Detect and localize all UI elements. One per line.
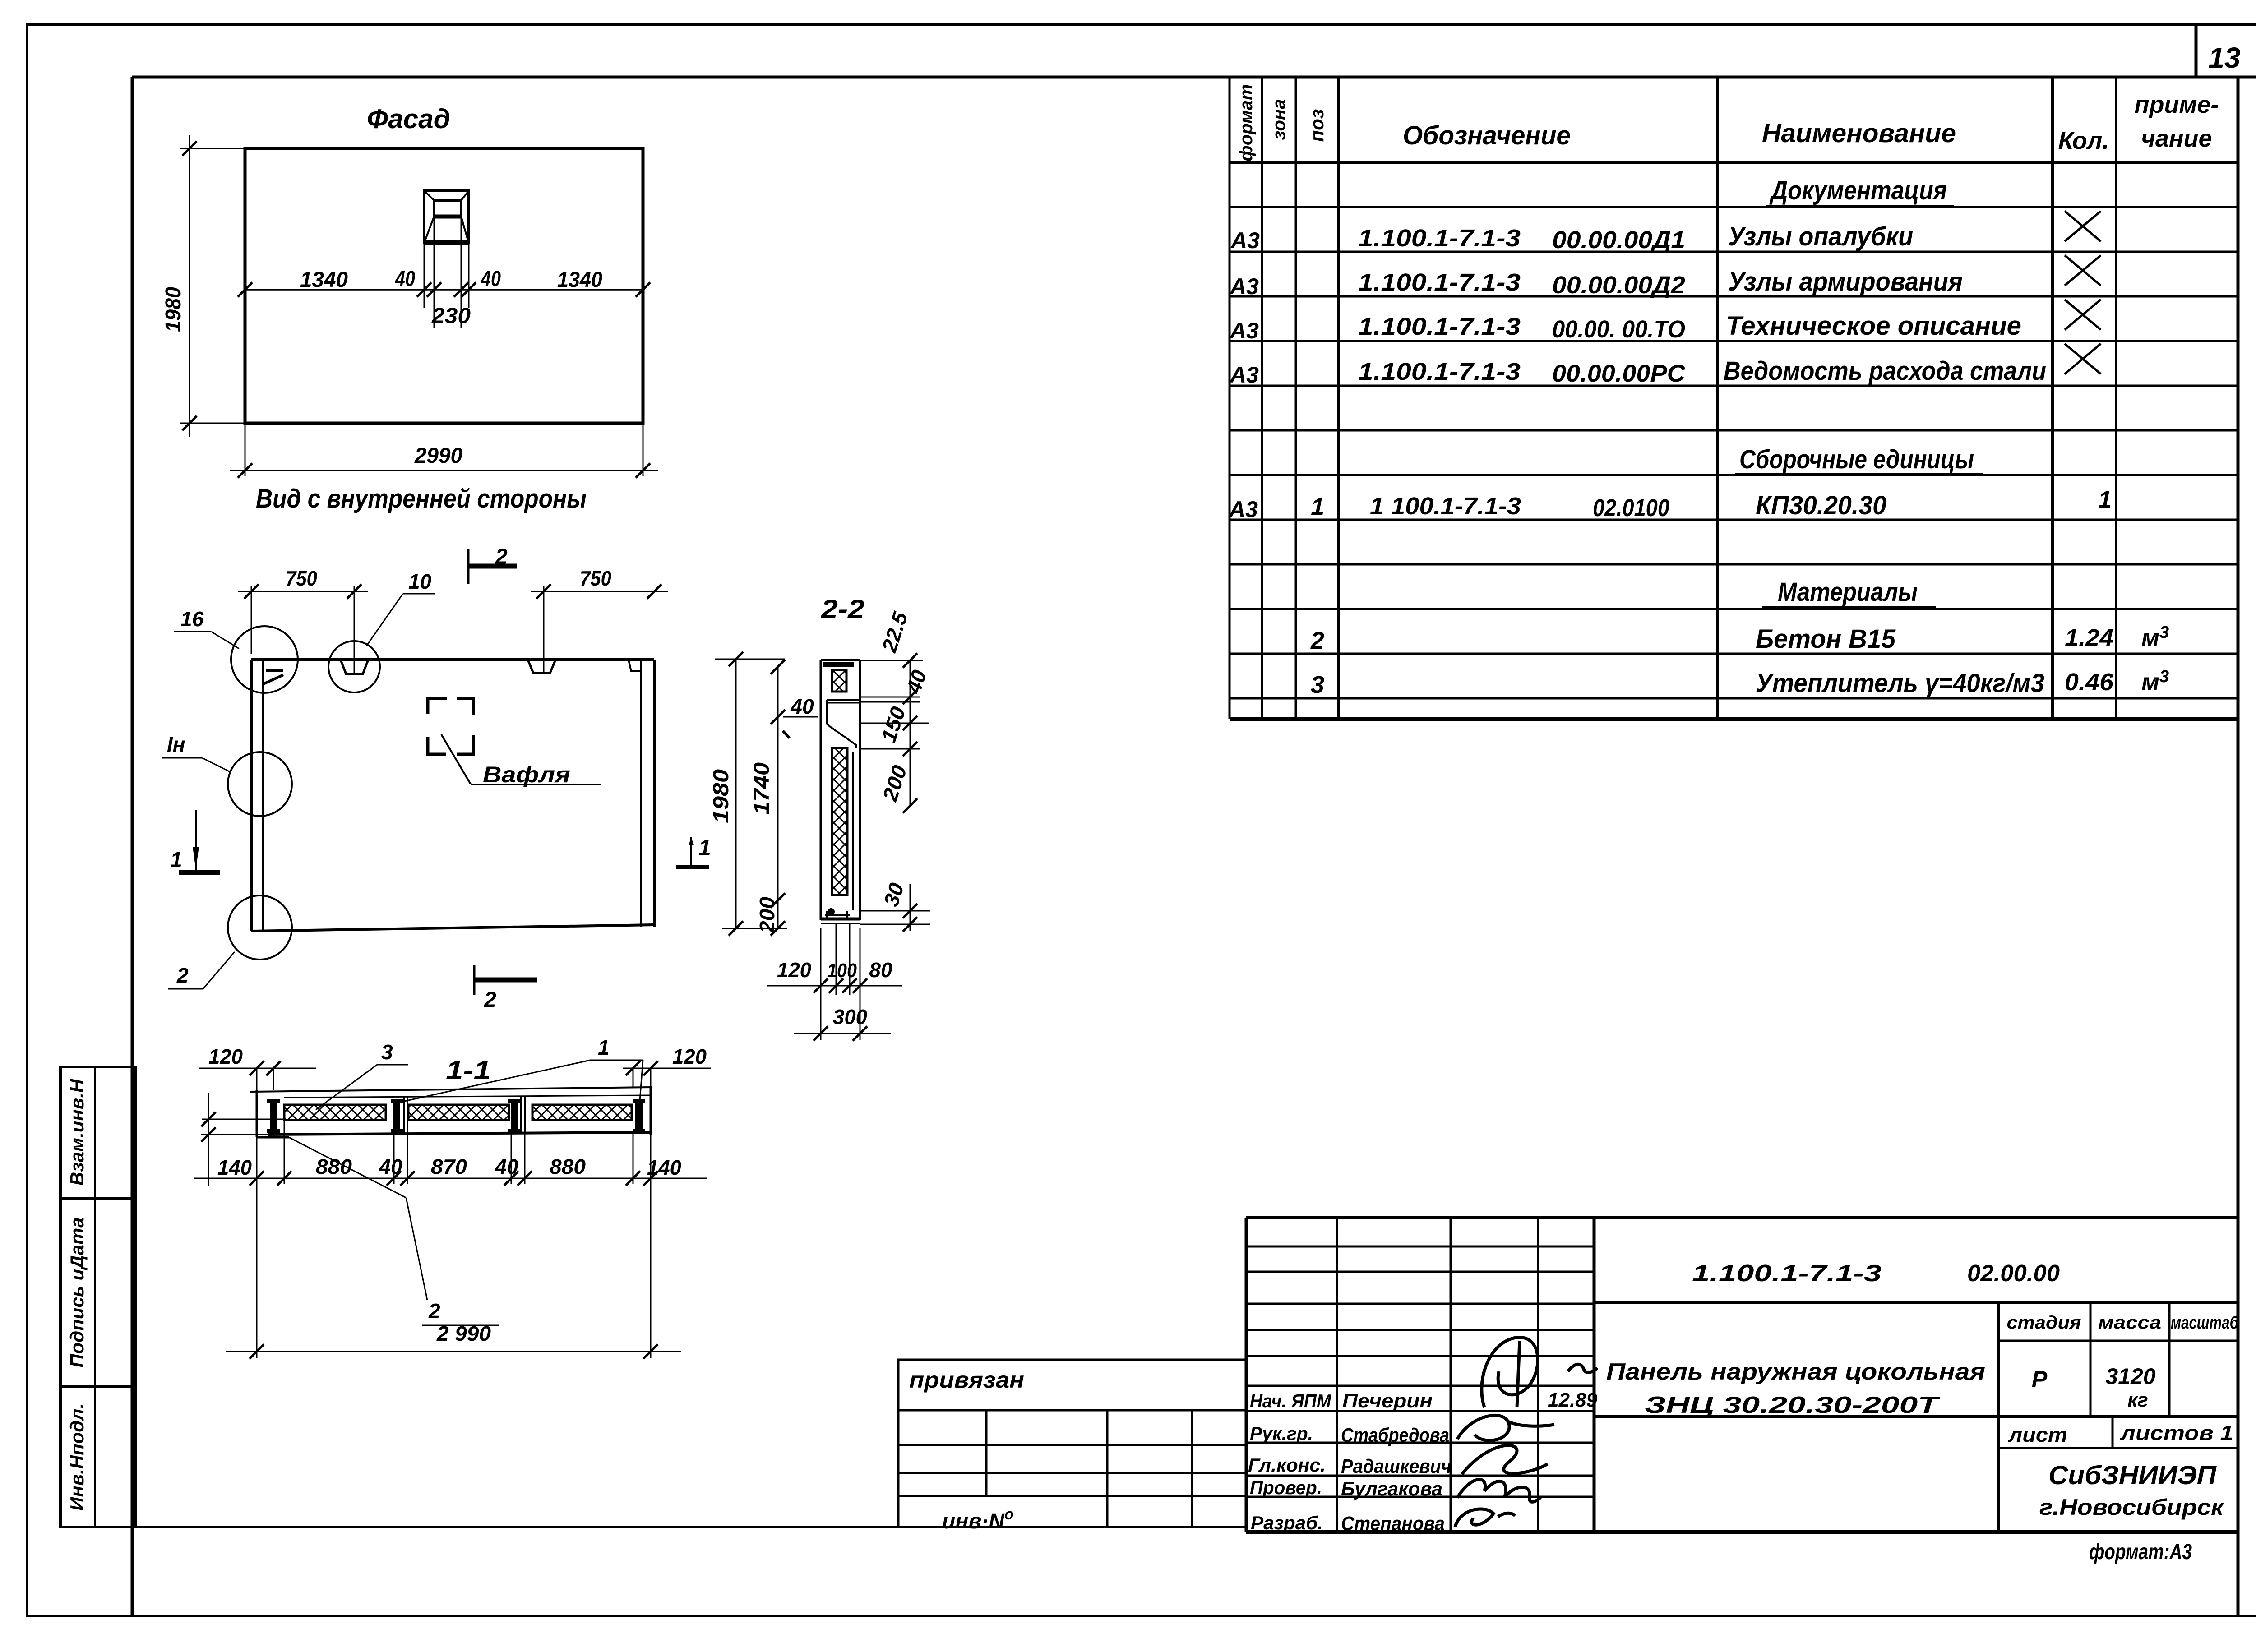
dimension 120 right [623,1045,711,1088]
section 1-1 dimension 2990 [226,1184,681,1359]
svg-text:формат:А3: формат:А3 [2089,1540,2192,1564]
svg-text:3120: 3120 [2105,1364,2155,1389]
svg-text:А3: А3 [1229,318,1259,343]
signature labels [1248,1389,1598,1535]
svg-text:Р: Р [2032,1366,2048,1393]
section mark 2 bottom [474,965,537,1012]
svg-text:Вафля: Вафля [483,762,570,787]
svg-text:Инв.Нподл.: Инв.Нподл. [66,1403,88,1511]
svg-text:Рук.гр.: Рук.гр. [1250,1423,1313,1444]
svg-text:880: 880 [550,1155,586,1178]
svg-text:Нач. ЯПМ: Нач. ЯПМ [1250,1390,1331,1412]
svg-text:Кол.: Кол. [2058,127,2109,154]
section 1-1 thickness reference lines [201,1093,284,1186]
svg-text:Iн: Iн [167,733,185,756]
svg-text:Разраб.: Разраб. [1251,1512,1323,1533]
inner drawing frame right line [2237,77,2240,1616]
callout circle node 16 [231,626,298,693]
signature squiggles [1455,1338,1597,1527]
dimension 120 left [199,1045,316,1090]
section 1-1 left end rib [267,1099,280,1133]
section mark 2 top [468,545,517,584]
svg-text:1.100.1-7.1-3: 1.100.1-7.1-3 [1358,313,1521,340]
svg-text:880: 880 [316,1155,352,1178]
svg-text:40: 40 [790,695,814,718]
callout circle node Iн [228,752,292,816]
spec row: Утеплитель [1311,667,2169,698]
svg-text:1340: 1340 [300,268,348,292]
svg-text:1.24: 1.24 [2065,624,2113,651]
svg-text:Обозначение: Обозначение [1403,121,1571,150]
svg-text:Сборочные единицы: Сборочные единицы [1739,445,1974,474]
svg-text:1740: 1740 [750,762,774,815]
svg-text:Печерин: Печерин [1342,1390,1433,1412]
svg-text:200: 200 [755,897,779,933]
svg-text:1.100.1-7.1-3: 1.100.1-7.1-3 [1692,1260,1882,1287]
specification table grid [1230,77,2238,719]
svg-text:120: 120 [672,1045,707,1068]
section 2-2 right dimensions [860,609,931,932]
svg-text:870: 870 [431,1155,467,1178]
spec row: Техническое описание [1229,300,2101,343]
facade vertical dimension 1980 [162,135,247,437]
section 2-2 insulation strip [832,748,847,895]
svg-text:поз: поз [1306,109,1327,142]
svg-text:1-1: 1-1 [446,1056,491,1085]
svg-text:А3: А3 [1229,362,1259,388]
svg-text:1: 1 [698,835,711,860]
facade middle dimension line [238,267,650,328]
label 2 with leader [168,952,235,989]
svg-text:12.89: 12.89 [1548,1389,1598,1411]
svg-text:инв·Nо: инв·Nо [942,1506,1014,1533]
title block grid [1246,1218,2238,1532]
svg-text:Узлы армирования: Узлы армирования [1728,267,1963,296]
svg-text:масштаб: масштаб [2171,1313,2239,1333]
svg-text:Провер.: Провер. [1250,1477,1322,1498]
label 2 with leader [289,1137,499,1325]
svg-text:А3: А3 [1230,228,1260,253]
svg-text:40: 40 [379,1155,402,1178]
svg-text:кг: кг [2127,1389,2148,1411]
spec row: КП30.20.30 [1228,486,2112,522]
svg-text:1980: 1980 [162,287,185,332]
svg-text:2: 2 [428,1299,440,1323]
callout circle node 10 [328,641,380,692]
facade panel outline [245,148,643,423]
svg-text:приме-: приме- [2135,91,2219,118]
svg-text:1: 1 [1311,494,1324,521]
spec row: Сборочные единицы heading [1735,445,1983,474]
svg-text:40: 40 [495,1155,518,1178]
svg-text:ЗНЦ 30.20.30-200Т: ЗНЦ 30.20.30-200Т [1645,1392,1941,1418]
svg-text:1980: 1980 [709,769,733,823]
svg-text:Подпись иДата: Подпись иДата [66,1217,88,1367]
svg-text:3: 3 [1311,671,1324,698]
svg-text:00.00. 00.ТО: 00.00. 00.ТО [1552,316,1685,343]
svg-text:120: 120 [208,1045,243,1068]
svg-text:А3: А3 [1229,274,1259,299]
section 1-1 joint 2 [508,1096,525,1133]
section 1-1 insulation strip 1 [284,1105,386,1120]
svg-text:1 100.1-7.1-3: 1 100.1-7.1-3 [1370,493,1521,520]
svg-text:привязан: привязан [909,1367,1024,1393]
svg-text:1: 1 [598,1036,610,1059]
section 1-1 bottom dimension chain [194,1120,707,1186]
long line from strip to title block [60,1526,1246,1528]
svg-text:Фасад: Фасад [367,104,450,134]
svg-text:А3: А3 [1228,497,1258,522]
svg-text:стадия: стадия [2007,1313,2081,1333]
svg-text:Панель наружная цокольная: Панель наружная цокольная [1606,1359,1985,1385]
svg-text:2: 2 [1310,627,1324,654]
corner detail (node 16) [264,671,283,684]
section 1-1 insulation strip 3 [532,1105,632,1120]
svg-text:листов 1: листов 1 [2120,1421,2233,1444]
svg-text:0.46: 0.46 [2065,669,2114,696]
svg-text:02.0100: 02.0100 [1593,494,1669,521]
svg-text:Документация: Документация [1769,176,1947,205]
svg-text:1340: 1340 [557,268,602,292]
label 3 with leader [316,1040,408,1110]
svg-text:100: 100 [827,960,857,982]
section 2-2 small insulation block [832,670,846,692]
top notch 1 [341,660,368,674]
spec row: Узлы армирования [1229,255,2101,299]
section 1-1 insulation strip 2 [408,1105,509,1120]
section 2-2 left dimensions [709,652,818,936]
svg-text:масса: масса [2098,1313,2161,1333]
svg-text:2: 2 [176,964,189,987]
svg-text:00.00.00Д1: 00.00.00Д1 [1552,226,1685,254]
svg-text:2990: 2990 [414,444,462,468]
callout circle node 2 [228,895,292,960]
svg-text:лист: лист [2008,1423,2067,1446]
svg-text:Стабредова: Стабредова [1341,1424,1449,1446]
svg-text:2 990: 2 990 [436,1322,491,1345]
svg-text:Бетон В15: Бетон В15 [1756,624,1896,654]
section 1-1 right end rib [633,1099,645,1133]
svg-text:чание: чание [2141,125,2212,152]
svg-text:Булгакова: Булгакова [1341,1478,1442,1500]
svg-text:Наименование: Наименование [1762,119,1956,148]
svg-text:2-2: 2-2 [821,595,864,624]
left table of title block [898,1410,1246,1527]
svg-text:Взам.инв.Н: Взам.инв.Н [66,1078,88,1186]
svg-text:00.00.00РС: 00.00.00РС [1552,360,1686,387]
svg-text:750: 750 [580,567,611,590]
section 2-2 bottom anchor [825,909,850,918]
стадия масса масштаб header [2007,1313,2239,1333]
label 1 with leaders [402,1036,643,1102]
section 1-1 panel outline [250,1087,652,1137]
svg-text:1.100.1-7.1-3: 1.100.1-7.1-3 [1358,225,1521,252]
svg-text:Техническое описание: Техническое описание [1726,311,2021,341]
svg-text:750: 750 [286,567,317,590]
section 2-2 bottom dimensions [767,923,902,1041]
svg-text:Вид с внутренней стороны: Вид с внутренней стороны [256,484,587,513]
section 2-2 profile [821,660,860,923]
svg-text:140: 140 [217,1156,252,1179]
svg-text:80: 80 [869,958,892,982]
facade bottom dimension 2990 [230,423,658,478]
svg-text:1.100.1-7.1-3: 1.100.1-7.1-3 [1358,269,1521,296]
top dimension 750 left [238,567,368,673]
svg-text:140: 140 [647,1156,681,1179]
вафля dashed square [428,698,473,754]
sheet number box [2196,24,2241,77]
svg-text:13: 13 [2208,42,2240,74]
svg-text:Узлы опалубки: Узлы опалубки [1728,222,1913,251]
spec row: Бетон В15 [1310,623,2169,654]
lifting hole outer [424,191,469,243]
section mark 1 right [676,835,711,867]
svg-text:Степанова: Степанова [1341,1513,1445,1535]
spec row: Узлы опалубки [1230,211,2101,254]
svg-text:1.100.1-7.1-3: 1.100.1-7.1-3 [1358,358,1521,385]
svg-text:СибЗНИИЭП: СибЗНИИЭП [2048,1461,2217,1490]
left part of title block: привязан box [898,1360,1246,1410]
svg-text:2: 2 [495,545,508,569]
svg-text:2: 2 [484,988,496,1012]
svg-text:КП30.20.30: КП30.20.30 [1756,491,1886,520]
svg-text:00.00.00Д2: 00.00.00Д2 [1552,272,1685,299]
svg-text:230: 230 [431,304,471,328]
inner drawing frame top line [132,76,2256,79]
svg-text:120: 120 [777,958,811,982]
spec row: Материалы heading [1762,577,1936,607]
svg-text:Утеплитель γ=40кг/м3: Утеплитель γ=40кг/м3 [1756,669,2044,698]
вафля label with leader [441,734,601,787]
spec row: Документация heading [1766,176,1954,206]
svg-text:3: 3 [381,1040,393,1064]
svg-text:Ведомость расхода стали: Ведомость расхода стали [1724,356,2046,386]
svg-text:02.00.00: 02.00.00 [1967,1260,2060,1287]
left margin strip [60,1067,135,1527]
label 16 with leader [174,607,239,649]
svg-text:300: 300 [833,1005,867,1029]
top notch 2 [528,660,555,673]
svg-text:40: 40 [481,267,501,291]
section mark 1 left [170,810,220,872]
svg-text:40: 40 [395,267,415,291]
svg-text:формат: формат [1236,84,1256,161]
inner view panel outline [251,660,654,931]
spec row: Ведомость расхода стали [1229,344,2101,388]
svg-text:1: 1 [170,848,182,872]
svg-text:зона: зона [1269,99,1289,140]
spec table headers [1236,84,2219,161]
label 10 with leader [366,570,435,646]
svg-text:Радашкевич: Радашкевич [1341,1455,1452,1477]
section 1-1 joint 1 [391,1096,407,1133]
svg-text:10: 10 [408,570,432,593]
top dimension 750 right [531,567,668,673]
label Iн with leader [162,733,231,772]
svg-text:16: 16 [180,607,204,631]
inner drawing frame left line [131,77,134,1616]
svg-text:Материалы: Материалы [1778,577,1918,607]
lifting hole extension lines [424,217,469,328]
svg-text:г.Новосибирск: г.Новосибирск [2039,1495,2225,1520]
right corner notch [629,660,641,671]
svg-text:1: 1 [2098,486,2112,513]
svg-text:Гл.конс.: Гл.конс. [1248,1454,1326,1476]
